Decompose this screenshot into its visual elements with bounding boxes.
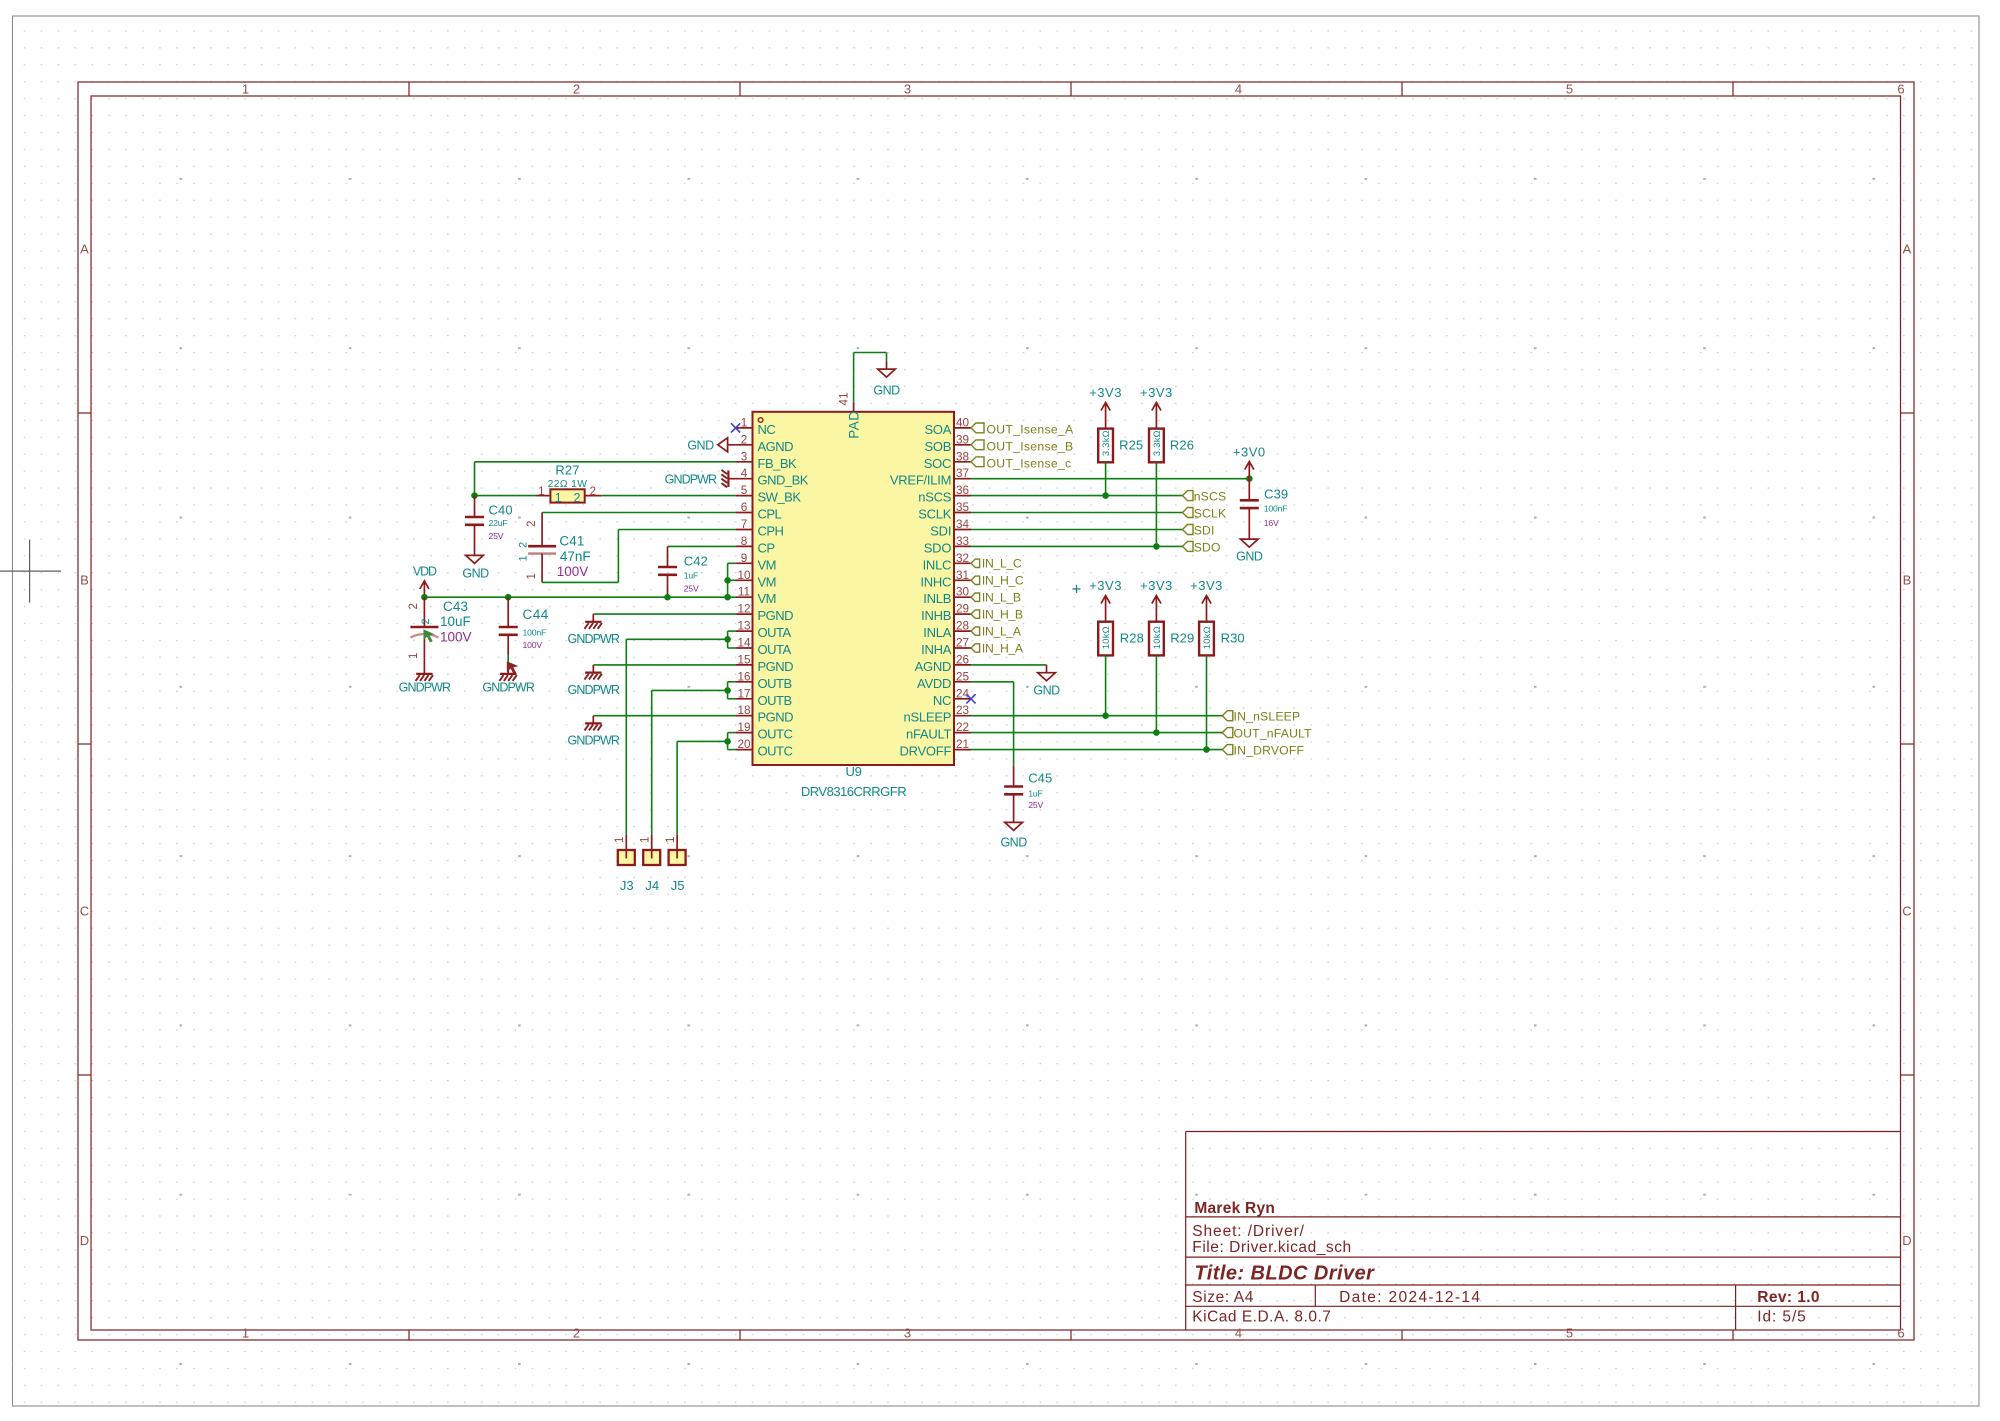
- svg-text:GND: GND: [873, 384, 900, 398]
- svg-text:SDO: SDO: [924, 540, 952, 555]
- svg-text:6: 6: [1897, 1325, 1904, 1340]
- U9 pin 14 OUTA: [736, 637, 792, 658]
- resistor R27 22R 1W: [536, 462, 601, 505]
- U9 pin 31 INHC: [920, 569, 971, 590]
- svg-text:VREF/ILIM: VREF/ILIM: [890, 473, 951, 488]
- wire branch to J3: [626, 639, 727, 835]
- svg-text:IN_DRVOFF: IN_DRVOFF: [1234, 744, 1305, 758]
- svg-text:A: A: [1903, 242, 1912, 257]
- svg-text:J3: J3: [620, 878, 634, 893]
- svg-text:Marek Ryn: Marek Ryn: [1194, 1200, 1275, 1217]
- wire branch to J5: [677, 741, 728, 835]
- U9 pin 37 VREF/ILIM: [890, 467, 971, 488]
- U9 pin 41 PAD: [839, 392, 862, 439]
- svg-text:OUTB: OUTB: [758, 676, 792, 691]
- IC U9 DRV8316CRRGFR body: [753, 412, 955, 765]
- svg-text:27: 27: [956, 637, 969, 650]
- U9 pin 17 OUTB: [736, 687, 792, 708]
- svg-text:4: 4: [1235, 1325, 1242, 1340]
- svg-text:1uF: 1uF: [1028, 789, 1042, 799]
- connector J4: [640, 835, 661, 893]
- U9 pin 1 NC bubble: [758, 418, 763, 423]
- wire VM hook pins 9/10: [728, 563, 736, 597]
- U9 pin 8 CP: [736, 535, 775, 556]
- hierarchical label OUT_Isense_B: [971, 439, 1073, 453]
- U9 pin 1 NC: [736, 416, 776, 437]
- svg-text:47nF: 47nF: [560, 549, 591, 564]
- svg-text:25V: 25V: [1028, 800, 1043, 810]
- U9 pin 19 OUTC: [736, 721, 793, 742]
- U9 pin 30 INLB: [923, 586, 971, 607]
- svg-text:C: C: [80, 904, 89, 919]
- svg-text:GND: GND: [1236, 550, 1263, 564]
- svg-text:NC: NC: [933, 693, 951, 708]
- svg-text:10uF: 10uF: [440, 614, 471, 629]
- svg-text:13: 13: [737, 620, 750, 633]
- junction J4 branch: [724, 687, 731, 694]
- resistor R29 10k with +3V3: [1140, 578, 1173, 622]
- junction VM pin11: [724, 594, 731, 601]
- hierarchical label OUT_Isense_c: [971, 456, 1071, 470]
- svg-text:PGND: PGND: [758, 659, 794, 674]
- svg-text:GNDPWR: GNDPWR: [399, 681, 451, 695]
- svg-text:2: 2: [420, 618, 432, 624]
- svg-text:1: 1: [538, 486, 544, 498]
- svg-text:GND: GND: [1033, 684, 1060, 698]
- wire VREF/ILIM to +3V0 node: [971, 478, 1249, 480]
- wire AGND pin26: [971, 664, 1047, 666]
- svg-text:KiCad E.D.A. 8.0.7: KiCad E.D.A. 8.0.7: [1192, 1309, 1331, 1326]
- svg-text:INLC: INLC: [923, 557, 952, 572]
- svg-text:GNDPWR: GNDPWR: [568, 683, 620, 697]
- svg-text:GND_BK: GND_BK: [758, 473, 809, 488]
- svg-text:VM: VM: [758, 591, 777, 606]
- svg-text:IN_L_A: IN_L_A: [982, 624, 1022, 638]
- wire PAD pin41 to GND: [854, 353, 887, 403]
- hierarchical label IN_H_B: [971, 607, 1023, 621]
- hierarchical label IN_L_A: [971, 624, 1022, 638]
- svg-text:IN_H_C: IN_H_C: [982, 574, 1024, 588]
- svg-text:3.3kΩ: 3.3kΩ: [1101, 430, 1111, 456]
- svg-text:6: 6: [1897, 82, 1904, 97]
- svg-text:IN_H_A: IN_H_A: [982, 641, 1024, 655]
- svg-text:SOC: SOC: [924, 456, 951, 471]
- svg-text:100V: 100V: [523, 640, 543, 650]
- svg-text:SW_BK: SW_BK: [758, 490, 802, 505]
- wire branch to J4: [652, 690, 728, 835]
- junction J5 branch: [724, 738, 731, 745]
- svg-text:4: 4: [1235, 82, 1242, 97]
- hierarchical label OUT_nFAULT: [1222, 727, 1312, 741]
- svg-text:File: Driver.kicad_sch: File: Driver.kicad_sch: [1192, 1239, 1351, 1256]
- svg-text:5: 5: [1566, 1325, 1573, 1340]
- svg-text:24: 24: [956, 687, 970, 700]
- U9 pin 28 INLA: [923, 620, 971, 641]
- svg-text:VDD: VDD: [413, 565, 437, 579]
- U9 pin 3 FB_BK: [736, 450, 797, 471]
- svg-text:OUT_Isense_c: OUT_Isense_c: [987, 456, 1072, 470]
- capacitor C43 10uF 100V (polarized): [408, 597, 472, 674]
- svg-text:28: 28: [956, 620, 969, 633]
- wire AVDD pin25 to C45: [971, 682, 1014, 766]
- svg-text:C41: C41: [559, 534, 584, 549]
- hierarchical label OUT_Isense_A: [971, 423, 1074, 437]
- GND symbol under C45: [1000, 822, 1027, 849]
- GNDPWR symbol under C43: [399, 674, 451, 695]
- svg-text:1: 1: [555, 491, 562, 505]
- svg-text:17: 17: [737, 687, 750, 700]
- U9 pin 21 DRVOFF: [899, 738, 971, 759]
- svg-text:PAD: PAD: [846, 411, 861, 439]
- svg-text:22Ω 1W: 22Ω 1W: [548, 479, 588, 490]
- svg-text:15: 15: [737, 653, 751, 666]
- svg-text:25: 25: [956, 670, 970, 683]
- svg-text:R27: R27: [555, 462, 579, 477]
- svg-text:9: 9: [741, 552, 748, 565]
- wire U9 pin15 PGND to GNDPWR: [593, 664, 735, 666]
- svg-text:VM: VM: [758, 574, 777, 589]
- GNDPWR symbol at pin18: [568, 716, 620, 748]
- wire U9 pin12 PGND to GNDPWR: [593, 613, 735, 615]
- svg-text:100V: 100V: [440, 630, 472, 645]
- svg-text:22uF: 22uF: [489, 518, 508, 528]
- svg-text:AGND: AGND: [758, 439, 794, 454]
- wire DRVOFF: [971, 749, 1222, 751]
- svg-text:4: 4: [741, 467, 748, 480]
- hierarchical label SDO: [1183, 540, 1221, 554]
- wire VM bus from VDD to U9 pin11: [424, 596, 735, 598]
- svg-text:GNDPWR: GNDPWR: [568, 734, 620, 748]
- svg-text:41: 41: [839, 392, 851, 405]
- svg-text:R29: R29: [1170, 631, 1194, 646]
- svg-text:5: 5: [1566, 82, 1573, 97]
- svg-text:J4: J4: [645, 878, 659, 893]
- GND symbol under C40: [462, 555, 489, 580]
- svg-text:+3V3: +3V3: [1089, 385, 1122, 400]
- hierarchical label SDI: [1183, 524, 1215, 538]
- svg-text:2: 2: [573, 82, 580, 97]
- svg-text:OUTC: OUTC: [758, 727, 793, 742]
- svg-text:33: 33: [956, 535, 969, 548]
- svg-text:DRVOFF: DRVOFF: [899, 744, 951, 759]
- svg-text:16: 16: [737, 670, 750, 683]
- U9 pin 4 GND_BK: [736, 467, 809, 488]
- U9 pin 36 nSCS: [918, 484, 971, 505]
- capacitor C39 100nF 16V: [1240, 479, 1288, 539]
- U9 pin 22 nFAULT: [906, 721, 971, 742]
- U9 pin 39 SOB: [924, 433, 971, 454]
- svg-text:DRV8316CRRGFR: DRV8316CRRGFR: [801, 784, 906, 799]
- svg-text:18: 18: [737, 704, 750, 717]
- wire R27 pin2 to U9 pin5 SW_BK: [601, 495, 735, 497]
- U9 pin 33 SDO: [924, 535, 971, 556]
- svg-text:C40: C40: [489, 503, 513, 518]
- svg-text:10kΩ: 10kΩ: [1152, 626, 1162, 649]
- svg-text:OUTA: OUTA: [758, 625, 792, 640]
- svg-text:25V: 25V: [489, 531, 504, 541]
- svg-text:SOB: SOB: [924, 439, 951, 454]
- wire U9 OUTC pins 19/20 hook: [728, 733, 736, 750]
- svg-text:PGND: PGND: [758, 710, 794, 725]
- power symbol +3V0: [1233, 445, 1266, 479]
- U9 pin 40 SOA: [924, 416, 971, 437]
- svg-text:R26: R26: [1170, 437, 1194, 452]
- svg-text:6: 6: [741, 501, 748, 514]
- svg-text:40: 40: [956, 416, 970, 429]
- svg-text:OUTB: OUTB: [758, 693, 792, 708]
- svg-text:C: C: [1902, 904, 1911, 919]
- svg-text:31: 31: [956, 569, 969, 582]
- svg-text:GNDPWR: GNDPWR: [665, 473, 717, 487]
- U9 pin 35 SCLK: [918, 501, 971, 522]
- U9 pin 24 NC: [933, 687, 971, 708]
- ERC marker arrow at C43: [423, 629, 434, 642]
- wire SCLK: [971, 512, 1183, 514]
- svg-text:CP: CP: [758, 540, 775, 555]
- svg-text:OUTA: OUTA: [758, 642, 792, 657]
- U9 reference: [845, 764, 861, 779]
- U9 pin 2 AGND: [736, 433, 794, 454]
- svg-text:2: 2: [408, 603, 420, 609]
- GND symbol under C39: [1236, 539, 1263, 563]
- svg-text:nSCS: nSCS: [1194, 490, 1227, 504]
- wire SDI: [971, 529, 1183, 531]
- hierarchical label IN_L_B: [971, 591, 1021, 605]
- junction VDD / C43: [421, 594, 428, 601]
- svg-text:INHA: INHA: [921, 642, 952, 657]
- hierarchical label IN_DRVOFF: [1222, 744, 1304, 758]
- capacitor C44 100nF 100V: [499, 597, 549, 674]
- U9 pin 6 CPL: [736, 501, 782, 522]
- svg-text:26: 26: [956, 653, 969, 666]
- svg-text:AVDD: AVDD: [917, 676, 951, 691]
- hierarchical label IN_H_C: [971, 574, 1024, 588]
- svg-text:2: 2: [574, 491, 581, 505]
- connector J5: [665, 835, 686, 893]
- svg-text:1: 1: [526, 573, 538, 579]
- svg-text:U9: U9: [845, 764, 861, 779]
- GND symbol at pin 2 AGND: [687, 438, 735, 453]
- ERC marker arrow at C44 GNDPWR: [507, 661, 519, 674]
- svg-text:GND: GND: [1000, 836, 1027, 850]
- U9 pin 23 nSLEEP: [904, 704, 971, 725]
- sheet origin crosshair: [0, 540, 61, 603]
- wire nSCS: [971, 495, 1183, 497]
- svg-text:19: 19: [737, 721, 750, 734]
- svg-text:OUTC: OUTC: [758, 744, 793, 759]
- resistor R25 3.3k with +3V3: [1089, 385, 1122, 429]
- hierarchical label SCLK: [1183, 507, 1227, 521]
- wire FB_BK vertical down to R27/C40 node: [474, 462, 476, 496]
- svg-text:C39: C39: [1264, 487, 1288, 502]
- svg-text:2: 2: [590, 486, 596, 498]
- svg-text:100V: 100V: [557, 564, 589, 579]
- U9 pin 26 AGND: [915, 653, 971, 674]
- svg-text:5: 5: [741, 484, 748, 497]
- svg-text:34: 34: [956, 518, 970, 531]
- svg-text:100nF: 100nF: [523, 628, 547, 638]
- connector J3: [614, 835, 635, 893]
- U9 pin 29 INHB: [921, 603, 971, 624]
- svg-text:Rev: 1.0: Rev: 1.0: [1757, 1289, 1820, 1306]
- svg-text:2: 2: [526, 521, 538, 527]
- U9 pin 9 VM: [736, 552, 776, 573]
- svg-text:SCLK: SCLK: [1194, 507, 1227, 521]
- GND symbol at pin26: [1033, 665, 1060, 698]
- svg-text:14: 14: [737, 637, 751, 650]
- svg-text:VM: VM: [758, 557, 777, 572]
- U9 pin 25 AVDD: [917, 670, 971, 691]
- resistor R28 10k with +3V3: [1089, 578, 1122, 622]
- wire C41 pin2 to U9 pin6 CPL: [542, 512, 736, 514]
- svg-text:CPH: CPH: [758, 524, 784, 539]
- hierarchical label IN_H_A: [971, 641, 1024, 655]
- svg-text:37: 37: [956, 467, 969, 480]
- svg-text:D: D: [1902, 1233, 1911, 1248]
- svg-text:SCLK: SCLK: [918, 507, 952, 522]
- svg-text:Size: A4: Size: A4: [1192, 1289, 1254, 1306]
- svg-text:+3V0: +3V0: [1233, 445, 1266, 460]
- svg-text:C45: C45: [1028, 771, 1052, 786]
- svg-text:35: 35: [956, 501, 970, 514]
- GND symbol above U9: [873, 361, 900, 397]
- svg-text:+3V3: +3V3: [1190, 578, 1223, 593]
- resistor R26 3.3k with +3V3: [1140, 385, 1173, 429]
- U9 pin 5 SW_BK: [736, 484, 802, 505]
- U9 pin 27 INHA: [921, 637, 971, 658]
- svg-text:30: 30: [956, 586, 970, 599]
- svg-text:38: 38: [956, 450, 969, 463]
- no-connect pin 24: [966, 694, 975, 703]
- svg-text:C44: C44: [523, 607, 549, 622]
- svg-text:SDI: SDI: [1194, 524, 1215, 538]
- svg-text:nSLEEP: nSLEEP: [904, 710, 952, 725]
- GNDPWR symbol at pin15: [568, 665, 620, 697]
- svg-text:39: 39: [956, 433, 969, 446]
- svg-text:CPL: CPL: [758, 507, 782, 522]
- U9 value DRV8316CRRGFR: [801, 784, 906, 799]
- svg-text:R30: R30: [1221, 631, 1245, 646]
- svg-text:B: B: [80, 573, 89, 588]
- svg-text:1: 1: [408, 653, 420, 659]
- svg-text:20: 20: [737, 738, 751, 751]
- svg-text:IN_nSLEEP: IN_nSLEEP: [1234, 710, 1301, 724]
- svg-text:IN_L_B: IN_L_B: [982, 591, 1021, 605]
- hierarchical label IN_L_C: [971, 557, 1022, 571]
- svg-text:22: 22: [956, 721, 969, 734]
- wire nFAULT: [971, 732, 1222, 734]
- svg-text:1uF: 1uF: [684, 571, 698, 581]
- hierarchical label IN_nSLEEP: [1222, 710, 1300, 724]
- hierarchical label nSCS: [1183, 490, 1227, 504]
- wire node to R27 pin1: [475, 495, 537, 497]
- svg-text:16V: 16V: [1264, 518, 1279, 528]
- svg-text:10kΩ: 10kΩ: [1202, 626, 1212, 649]
- node marker cross: [1073, 585, 1081, 593]
- svg-text:+3V3: +3V3: [1140, 578, 1173, 593]
- svg-text:OUT_Isense_B: OUT_Isense_B: [987, 439, 1074, 453]
- power symbol VDD: [413, 565, 437, 598]
- U9 pin 20 OUTC: [736, 738, 793, 759]
- svg-text:GND: GND: [462, 567, 489, 581]
- junction +3V0 / C39: [1246, 475, 1253, 482]
- svg-text:SDO: SDO: [1194, 540, 1221, 554]
- svg-text:FB_BK: FB_BK: [758, 456, 798, 471]
- svg-text:INHB: INHB: [921, 608, 951, 623]
- svg-text:8: 8: [741, 535, 748, 548]
- svg-text:B: B: [1903, 573, 1912, 588]
- U9 pin 13 OUTA: [736, 620, 792, 641]
- svg-text:AGND: AGND: [915, 659, 952, 674]
- junction VM pin10: [724, 577, 731, 584]
- svg-text:R25: R25: [1119, 437, 1143, 452]
- svg-text:+3V3: +3V3: [1140, 385, 1173, 400]
- svg-text:1: 1: [518, 555, 530, 561]
- svg-text:SOA: SOA: [924, 422, 951, 437]
- svg-text:3.3kΩ: 3.3kΩ: [1152, 430, 1162, 456]
- svg-text:C43: C43: [443, 599, 468, 614]
- capacitor C41 47nF 100V: [518, 513, 591, 583]
- svg-text:nSCS: nSCS: [918, 490, 952, 505]
- svg-text:Title: BLDC Driver: Title: BLDC Driver: [1194, 1262, 1375, 1284]
- svg-text:1: 1: [242, 82, 249, 97]
- svg-text:2: 2: [518, 542, 530, 548]
- U9 pin 15 PGND: [736, 653, 794, 674]
- svg-text:25V: 25V: [684, 584, 699, 594]
- wire nSLEEP: [971, 715, 1222, 717]
- svg-text:3: 3: [904, 1325, 911, 1340]
- svg-text:29: 29: [956, 603, 969, 616]
- svg-text:36: 36: [956, 484, 969, 497]
- svg-text:1: 1: [665, 837, 677, 843]
- wire pin3 FB_BK horizontal: [475, 461, 736, 463]
- svg-text:3: 3: [741, 450, 748, 463]
- svg-text:12: 12: [737, 603, 750, 616]
- svg-text:IN_L_C: IN_L_C: [982, 557, 1022, 571]
- svg-text:J5: J5: [671, 878, 685, 893]
- junction C44 on VM wire: [505, 594, 512, 601]
- wire U9 OUTB pins 16/17 hook: [728, 682, 736, 699]
- svg-text:C42: C42: [684, 554, 708, 569]
- svg-text:3: 3: [904, 82, 911, 97]
- U9 pin 38 SOC: [924, 450, 971, 471]
- wire C41 pin1 to U9 pin7 CPH (staircase): [542, 530, 736, 583]
- capacitor C42 1uF 25V: [658, 546, 708, 597]
- svg-text:INLA: INLA: [923, 625, 951, 640]
- GNDPWR symbol at pin12: [568, 614, 620, 646]
- svg-text:21: 21: [956, 738, 969, 751]
- U9 pin 18 PGND: [736, 704, 794, 725]
- svg-text:GNDPWR: GNDPWR: [568, 632, 620, 646]
- junction J3 branch: [724, 636, 731, 643]
- svg-text:23: 23: [956, 704, 969, 717]
- svg-text:PGND: PGND: [758, 608, 794, 623]
- svg-text:GNDPWR: GNDPWR: [482, 681, 534, 695]
- U9 pin 10 VM: [736, 569, 776, 590]
- svg-text:32: 32: [956, 552, 969, 565]
- wire U9 OUTA pins 13/14 hook: [728, 631, 736, 648]
- wire U9 pin18 PGND to GNDPWR: [593, 715, 735, 717]
- svg-text:1: 1: [242, 1325, 249, 1340]
- node junction FB_BK / R27 / C40: [471, 492, 478, 499]
- svg-text:7: 7: [741, 518, 748, 531]
- svg-text:Date: 2024-12-14: Date: 2024-12-14: [1339, 1289, 1481, 1306]
- U9 pin 32 INLC: [923, 552, 971, 573]
- svg-text:1: 1: [741, 416, 748, 429]
- U9 pin 34 SDI: [930, 518, 971, 539]
- wire SDO: [971, 545, 1183, 547]
- svg-text:10: 10: [737, 569, 751, 582]
